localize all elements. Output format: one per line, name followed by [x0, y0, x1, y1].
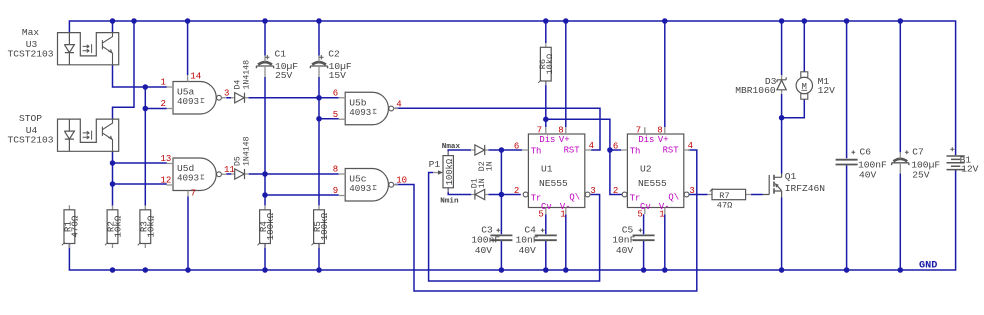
svg-text:2: 2: [613, 186, 618, 196]
wire: diode junction down to C3: [500, 150, 502, 234]
svg-text:7: 7: [191, 187, 197, 198]
svg-text:NE555: NE555: [638, 178, 667, 189]
resistor R5 100kΩ: [318, 205, 320, 248]
svg-text:5: 5: [333, 110, 338, 120]
svg-text:40V: 40V: [616, 245, 634, 256]
svg-text:NE555: NE555: [539, 178, 568, 189]
wire: P1 top (Nmax) to D2 anode: [448, 150, 471, 156]
wire: node to U5c pin9: [265, 194, 339, 196]
svg-text:25V: 25V: [912, 170, 930, 181]
wire: V+ to C2 +: [318, 21, 320, 56]
svg-text:Tr: Tr: [630, 194, 641, 204]
svg-text:Nmax: Nmax: [442, 143, 461, 151]
capacitor C3 100nF 40V: [490, 235, 512, 240]
svg-text:4093: 4093: [349, 183, 371, 194]
svg-text:8: 8: [558, 125, 563, 135]
svg-text:1: 1: [659, 209, 664, 219]
svg-text:10kΩ: 10kΩ: [113, 215, 124, 238]
svg-text:Dis: Dis: [638, 135, 654, 145]
svg-text:RST: RST: [564, 146, 580, 156]
svg-text:1N: 1N: [478, 178, 487, 188]
svg-text:40V: 40V: [519, 245, 537, 256]
diode D2 1N4148: [471, 149, 488, 151]
svg-text:1N4148: 1N4148: [242, 60, 251, 90]
wire: D1 to Tr node: [488, 194, 501, 196]
svg-text:Q\: Q\: [569, 192, 580, 202]
wire: U3 collector to V+ rail: [112, 21, 114, 33]
capacitor C2 10uF 15V (polarized): [312, 62, 326, 65]
svg-text:1N4148: 1N4148: [242, 136, 251, 166]
svg-text:2: 2: [514, 186, 519, 196]
svg-text:D5: D5: [234, 156, 243, 166]
svg-text:C7: C7: [912, 146, 924, 157]
wire: Q1 source to GND: [781, 198, 783, 271]
wire: R4 to GND: [264, 244, 266, 271]
svg-text:7: 7: [537, 125, 542, 135]
svg-text:13: 13: [161, 154, 172, 164]
wire: V+ rail jog to U4 collector: [113, 21, 135, 119]
svg-text:12V: 12V: [961, 163, 979, 174]
svg-text:100kΩ: 100kΩ: [445, 158, 455, 185]
wire: C6 to GND: [846, 166, 848, 271]
wire: bottom GND rail: [69, 170, 955, 270]
svg-text:7: 7: [636, 125, 641, 135]
capacitor C5 10nF 40V: [633, 235, 655, 240]
resistor R3 10kΩ: [144, 205, 146, 248]
svg-text:3: 3: [689, 186, 694, 196]
svg-text:12: 12: [161, 176, 172, 186]
wire: M1 - to flyback node: [782, 99, 805, 118]
svg-text:6: 6: [613, 141, 618, 151]
wire: R6 to U1 Dis pin7: [545, 81, 547, 127]
wire: V+ to U2 pin8: [664, 21, 666, 127]
svg-text:GND: GND: [919, 260, 937, 271]
wire: V+ to U1 pin8: [565, 21, 567, 127]
resistor R7 47Ω: [708, 194, 752, 196]
wire: C7 - to GND: [899, 174, 901, 271]
wire: U5a pin2 row: [145, 108, 167, 110]
svg-text:3: 3: [590, 186, 595, 196]
svg-text:3: 3: [224, 89, 229, 99]
svg-text:Q\: Q\: [668, 192, 679, 202]
wire: C4 to GND: [545, 241, 547, 270]
timer U1 NE555: [528, 134, 584, 208]
wire: C5 to GND: [643, 241, 645, 270]
wire: node C2/R5 to U5b pin5: [319, 118, 339, 120]
svg-text:D4: D4: [234, 80, 243, 90]
wire: V+ to M1 +: [803, 21, 805, 72]
wire: V+ to D3 cathode: [781, 21, 783, 75]
wire: U2 output pin3 to R7: [687, 194, 707, 196]
wire: D5 cathode to C1/R4 node: [249, 173, 266, 175]
wire: node to U1 Th pin6: [501, 149, 522, 151]
svg-text:Q1: Q1: [785, 171, 797, 182]
svg-text:TCST2103: TCST2103: [7, 49, 53, 60]
wire: R7 to Q1 gate: [751, 194, 763, 196]
svg-text:4093: 4093: [349, 107, 371, 118]
wire: U4 emitter down to R2: [112, 151, 114, 206]
svg-text:U2: U2: [640, 164, 652, 175]
svg-text:1: 1: [560, 209, 565, 219]
wire: U4 emitter to U5d pin13: [113, 162, 167, 164]
svg-text:Tr: Tr: [531, 194, 542, 204]
resistor R1 470Ω: [68, 205, 70, 248]
wire: U5d pin7 to GND: [187, 197, 189, 271]
svg-text:V+: V+: [559, 135, 570, 145]
svg-text:R7: R7: [719, 191, 729, 201]
svg-text:4: 4: [589, 141, 594, 151]
junction dot D5/C1 node: [262, 171, 268, 177]
capacitor C1 10uF 25V (polarized): [258, 62, 272, 65]
svg-text:Th: Th: [531, 147, 542, 157]
resistor R6 10kΩ: [545, 43, 547, 85]
junction dot D4/C2 node: [316, 95, 322, 101]
optocoupler U4 TCST2103: [58, 119, 119, 151]
timer U2 NE555: [627, 134, 683, 208]
svg-text:RST: RST: [663, 146, 679, 156]
svg-text:6: 6: [333, 88, 338, 98]
diode D4 1N4148: [231, 97, 248, 99]
wire: U5a pins 1-2 down to R3: [144, 87, 146, 206]
battery B1 12V: [955, 155, 957, 169]
U5a pin14 power stub: [187, 75, 189, 82]
wire: U2 pin1 to GND: [664, 214, 666, 270]
wire: U2 Cv pin5 to C5: [643, 214, 645, 234]
wire: node to U2 Th pin6: [610, 149, 621, 151]
junction dot motor/D3/drain node: [779, 115, 785, 121]
junction dot diode/555 node: [499, 147, 505, 153]
svg-text:47Ω: 47Ω: [717, 201, 732, 211]
wire: node to U1 Tr pin2: [501, 194, 520, 196]
svg-text:C1: C1: [275, 49, 287, 60]
wire: V+ to C6: [846, 21, 848, 158]
svg-text:1: 1: [161, 78, 166, 88]
wire: R5 to GND: [318, 244, 320, 271]
junction dot node U5d inputs: [110, 160, 116, 166]
svg-text:8: 8: [657, 125, 662, 135]
nand gate U5b (4093): [345, 92, 388, 125]
svg-text:100kΩ: 100kΩ: [265, 212, 276, 240]
svg-text:IRFZ46N: IRFZ46N: [785, 183, 825, 194]
wire: R6/Dis node to U2 Th+Tr: [546, 119, 622, 194]
wire: D4 cathode to U5b pin6: [248, 97, 338, 99]
svg-text:6: 6: [514, 141, 519, 151]
junction dot U2 Th node: [607, 147, 613, 153]
junction dot node U5a inputs: [143, 84, 149, 90]
capacitor C6 100nF 40V: [836, 160, 858, 165]
wire: U1 output pin3 to P1 wiper: [429, 173, 600, 282]
svg-text:40V: 40V: [475, 245, 493, 256]
svg-text:15V: 15V: [329, 70, 347, 81]
U5d pin7 power stub: [187, 191, 189, 197]
svg-text:P1: P1: [429, 159, 441, 170]
wire: U5a output to D4 anode: [226, 97, 231, 99]
wire: C2 - down to R5: [318, 77, 320, 206]
svg-text:1N: 1N: [486, 161, 495, 171]
resistor R2 10kΩ: [112, 205, 114, 248]
svg-text:10kΩ: 10kΩ: [145, 215, 156, 238]
svg-text:12V: 12V: [818, 85, 836, 96]
wire: U3 emitter to U5a pin1: [113, 65, 167, 87]
wire: D2 cathode to Th node: [488, 149, 501, 151]
wire: node C1/R4 to U5c pin8 (D5 cathode junction): [265, 173, 339, 175]
svg-text:MBR1060: MBR1060: [735, 85, 776, 96]
svg-text:100kΩ: 100kΩ: [319, 212, 330, 240]
svg-text:5: 5: [538, 209, 543, 219]
wire: C1 - down to R4 (crosses D4 net): [264, 77, 266, 206]
svg-text:Th: Th: [630, 147, 641, 157]
resistor R4 100kΩ: [264, 205, 266, 248]
wire: U1 Cv pin5 to C4: [545, 214, 547, 234]
capacitor C7 100uF 25V (polarized): [893, 159, 907, 162]
svg-text:10kΩ: 10kΩ: [545, 54, 555, 75]
wire: V+ to R6: [545, 21, 547, 43]
svg-text:25V: 25V: [275, 70, 293, 81]
svg-text:Max: Max: [22, 27, 40, 38]
svg-text:4: 4: [688, 141, 693, 151]
svg-text:V+: V+: [658, 135, 669, 145]
wire: U1 pin1 to GND: [565, 214, 567, 270]
nand gate U5c (4093): [345, 169, 388, 202]
svg-text:4: 4: [396, 99, 401, 109]
svg-text:14: 14: [190, 71, 202, 82]
svg-text:C6: C6: [860, 146, 872, 157]
wire: V+ to U5a pin14: [187, 21, 189, 75]
svg-text:Nmin: Nmin: [440, 197, 459, 205]
svg-text:5: 5: [637, 209, 642, 219]
svg-text:9: 9: [333, 186, 338, 196]
svg-text:470Ω: 470Ω: [69, 215, 80, 238]
motor M1 12V: [801, 72, 808, 78]
wire: U5d output to D5 anode: [226, 173, 231, 175]
wire: node to U5d pin12: [113, 183, 167, 185]
svg-text:2: 2: [161, 99, 166, 109]
wire: V+ to C1 +: [264, 21, 266, 56]
junction dots on V+ rail: [110, 18, 116, 24]
capacitor C4 10nF 40V: [535, 235, 557, 240]
svg-text:4093: 4093: [177, 173, 199, 184]
junction dots on GND rail: [110, 267, 116, 273]
svg-text:C2: C2: [328, 49, 340, 60]
wire: U5b output pin4 to U1 RST: [395, 108, 600, 150]
nand gate U5d (4093): [173, 158, 216, 191]
wire: D3 anode / motor - to Q1 drain: [781, 94, 783, 174]
wire: U5c output pin10 to U2 RST: [395, 150, 697, 291]
nand gate U5a (4093): [173, 82, 216, 115]
diode D1 1N4148: [472, 194, 489, 196]
optocoupler U3 TCST2103: [58, 33, 119, 65]
svg-text:40V: 40V: [859, 170, 877, 181]
svg-text:TCST2103: TCST2103: [7, 135, 53, 146]
svg-text:STOP: STOP: [19, 113, 42, 124]
wire: V+ to C7 +: [899, 21, 901, 152]
wire: top V+ supply rail: [69, 21, 955, 155]
potentiometer P1 100k: [447, 151, 449, 192]
transistor Q1 IRFZ46N (N-MOSFET): [763, 175, 770, 195]
diode D3 MBR1060 (Schottky, flyback): [781, 75, 783, 94]
svg-text:4093: 4093: [177, 96, 199, 107]
wire: P1 bottom (Nmin) to D1: [448, 188, 471, 195]
svg-text:U1: U1: [541, 164, 553, 175]
svg-text:10: 10: [396, 176, 407, 186]
diode D5 1N4148: [231, 173, 248, 175]
svg-text:Dis: Dis: [539, 135, 555, 145]
wire: C3 to GND: [500, 241, 502, 270]
svg-text:8: 8: [333, 165, 338, 175]
junction dot R6/Dis node: [543, 117, 549, 123]
